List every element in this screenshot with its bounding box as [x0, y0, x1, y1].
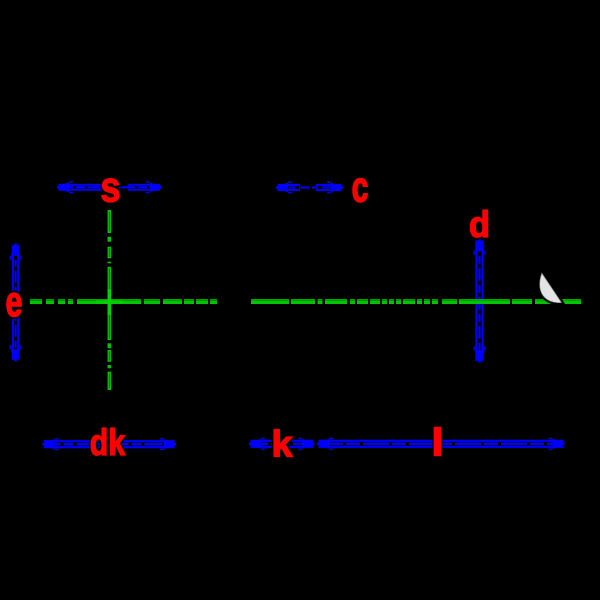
label k — [272, 423, 293, 465]
svg-text:e: e — [6, 277, 23, 326]
label e — [6, 277, 23, 326]
label c — [352, 162, 369, 211]
dimension arrow l — [317, 439, 565, 450]
dimension arrow c — [276, 182, 343, 193]
dimension arrow dk — [43, 439, 177, 450]
svg-text:c: c — [352, 162, 369, 211]
svg-text:s: s — [100, 164, 120, 212]
vertical green dashed line (lens plane at cross) — [108, 210, 112, 390]
cross junction highlight — [96, 289, 123, 315]
label dk — [90, 422, 126, 464]
crescent (lens sliver) black halo — [540, 273, 562, 302]
optical axis: horizontal green dashed line — [30, 300, 581, 303]
crescent (lens sliver) — [540, 273, 562, 302]
label d — [469, 204, 490, 245]
svg-text:d: d — [469, 204, 490, 245]
dimension arrow k — [249, 439, 315, 450]
svg-text:dk: dk — [90, 422, 126, 464]
label s — [100, 164, 120, 212]
dimension arrow d — [474, 239, 485, 363]
dimension arrow s — [57, 182, 162, 193]
dimension arrow e — [10, 244, 21, 362]
label l — [432, 422, 442, 463]
svg-text:k: k — [272, 423, 293, 465]
svg-text:l: l — [432, 422, 442, 463]
